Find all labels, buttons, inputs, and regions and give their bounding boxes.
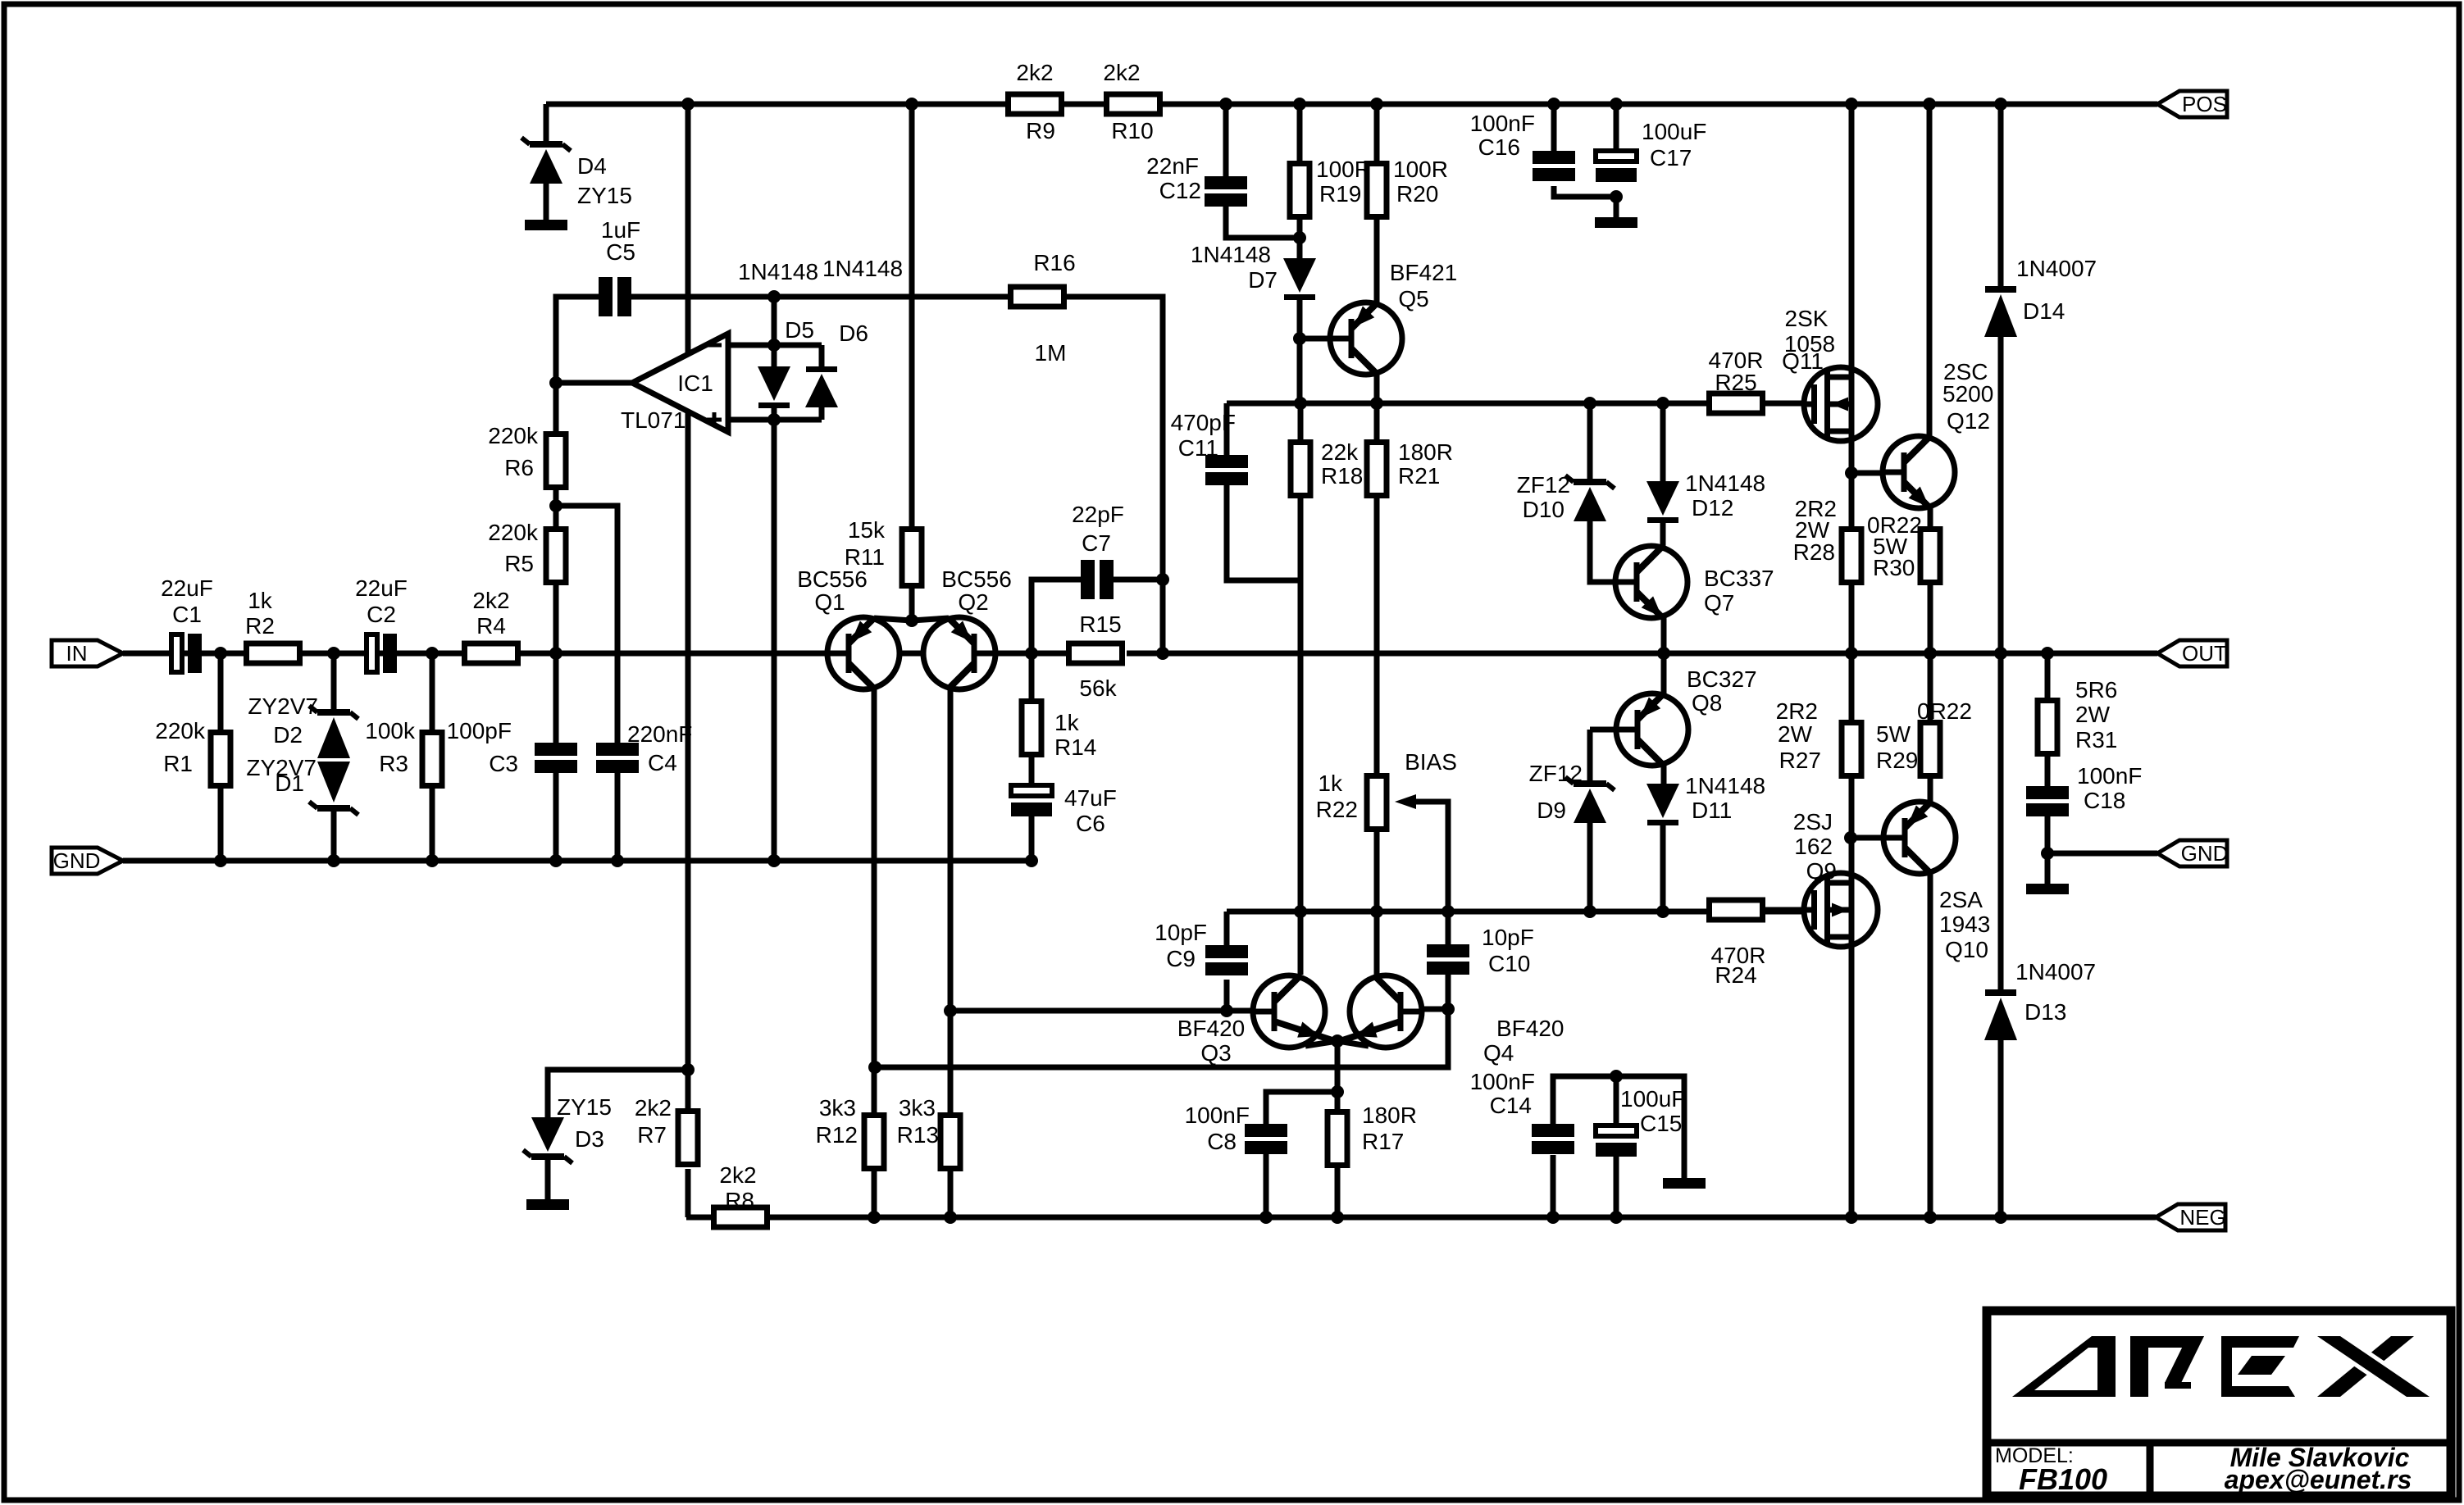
wire NEG rail <box>686 1215 2156 1221</box>
wire R9 R10 segment <box>1064 102 1104 107</box>
diode D14 (1N4007) <box>1984 286 2017 337</box>
wire POS to D14 <box>1998 104 2004 286</box>
wire R19 to D7 <box>1297 220 1303 258</box>
svg-text:D9: D9 <box>1537 798 1566 823</box>
svg-text:Q9: Q9 <box>1806 858 1837 884</box>
wire C3 bottom to GND rail <box>553 773 559 861</box>
arrow Q10 emitter (PNP) <box>1907 805 1928 826</box>
zener diode D3 <box>523 1117 572 1163</box>
svg-text:D12: D12 <box>1692 495 1733 521</box>
capacitor C7 <box>1081 560 1114 599</box>
svg-text:1M: 1M <box>1035 340 1067 366</box>
capacitor C1 <box>171 634 202 673</box>
svg-text:R20: R20 <box>1396 181 1438 207</box>
wire C18 ground stub <box>2045 853 2051 884</box>
junction dot D5 plus input <box>767 413 781 426</box>
junction dot Q3 base line start <box>944 1004 957 1017</box>
wire POS to C12 <box>1223 104 1229 176</box>
capacitor C2 <box>367 634 397 673</box>
title block divider horizontal <box>1987 1439 2451 1447</box>
junction dots GND rail <box>214 854 1038 867</box>
svg-text:180R: 180R <box>1398 439 1453 465</box>
junction dot Q12 base <box>1845 466 1858 480</box>
wire C15 bottom to NEG <box>1614 1155 1619 1217</box>
svg-text:100nF: 100nF <box>2077 763 2142 789</box>
svg-text:D13: D13 <box>2024 999 2066 1025</box>
junction dot C18 GND <box>2041 847 2054 860</box>
wire C4 bottom to GND rail <box>615 773 621 861</box>
wire Q8 base from D9 <box>1590 727 1636 733</box>
wire IN signal line <box>123 651 827 657</box>
zener diode D10 <box>1565 475 1615 521</box>
wire R28 to OUT <box>1849 585 1855 653</box>
APEX logo letter A <box>2012 1336 2116 1397</box>
svg-text:IC1: IC1 <box>677 371 713 396</box>
arrow Q1 emitter (PNP) <box>851 621 872 642</box>
svg-text:D3: D3 <box>575 1126 604 1152</box>
wire POS to R11 <box>909 104 915 526</box>
ground stub C18 <box>2026 884 2069 894</box>
svg-text:100nF: 100nF <box>1470 111 1535 136</box>
svg-text:FB100: FB100 <box>2019 1462 2107 1496</box>
svg-text:NEG: NEG <box>2179 1205 2225 1230</box>
svg-text:D6: D6 <box>839 321 868 346</box>
svg-text:R5: R5 <box>504 551 534 576</box>
wire Q5 collector to junction <box>1374 372 1380 403</box>
wire C9 top branch <box>1224 912 1230 945</box>
resistor R3 <box>422 733 442 786</box>
ground stub C14 C15 <box>1663 1178 1706 1189</box>
resistor R7 <box>678 1112 698 1165</box>
svg-text:D14: D14 <box>2023 298 2065 324</box>
svg-text:22nF: 22nF <box>1146 153 1199 179</box>
svg-text:BC556: BC556 <box>941 566 1012 592</box>
op-amp IC1 (TL071) <box>632 334 728 432</box>
svg-text:R2: R2 <box>245 613 275 639</box>
wire Q9 source to NEG <box>1849 946 1855 1217</box>
junction dots NEG rail <box>868 1211 2007 1224</box>
transistor Q3 (BF420) <box>1253 975 1325 1048</box>
wire C12 bottom to D7 column <box>1226 206 1300 238</box>
wire Q8 emitter to OUT <box>1661 653 1667 693</box>
wire POS to C17 <box>1614 104 1619 151</box>
svg-text:C18: C18 <box>2084 788 2125 813</box>
svg-text:1N4007: 1N4007 <box>2015 959 2096 984</box>
svg-text:1N4148: 1N4148 <box>1685 471 1765 496</box>
wire R3 column <box>430 653 435 730</box>
capacitor C4 <box>596 743 639 773</box>
svg-text:100nF: 100nF <box>1470 1069 1535 1094</box>
svg-text:1k: 1k <box>1054 710 1080 735</box>
svg-text:3k3: 3k3 <box>899 1095 936 1121</box>
resistor R1 <box>211 733 230 786</box>
wire R13 bottom to NEG <box>948 1171 954 1217</box>
junction dot tail C8 R17 <box>1331 1085 1344 1098</box>
wire D10 column <box>1587 403 1593 479</box>
svg-text:GND: GND <box>53 848 101 873</box>
svg-text:C14: C14 <box>1490 1093 1532 1118</box>
svg-text:2k2: 2k2 <box>635 1095 672 1121</box>
junction dots POS rail <box>681 98 2007 111</box>
junction dot Q4 base <box>1442 1003 1455 1016</box>
port POS <box>2157 91 2227 117</box>
junction dot Q10 base <box>1844 831 1857 844</box>
svg-text:1N4148: 1N4148 <box>1191 242 1271 267</box>
wire POS to R19 <box>1297 104 1303 161</box>
wire common tail to R17 <box>1335 1041 1341 1109</box>
wire R24 to Q9 gate <box>1765 907 1812 913</box>
svg-text:R24: R24 <box>1715 962 1756 988</box>
svg-text:1N4148: 1N4148 <box>1685 773 1765 798</box>
wire D5 body connections <box>772 345 777 366</box>
wire R5 bottom to signal line <box>553 584 559 653</box>
junction dot C16 C17 bottom <box>1610 190 1623 203</box>
port IN <box>52 640 123 666</box>
wire C14 bottom to NEG <box>1551 1155 1556 1217</box>
junction dot C7 right <box>1156 573 1169 586</box>
svg-text:C10: C10 <box>1488 951 1530 976</box>
svg-text:R1: R1 <box>163 751 193 776</box>
svg-text:ZF12: ZF12 <box>1517 472 1570 498</box>
svg-text:C15: C15 <box>1640 1111 1682 1136</box>
wire OUT to R27 <box>1849 653 1855 720</box>
wire C15 top <box>1614 1076 1619 1125</box>
wire C14 top line to ground stub <box>1553 1076 1684 1178</box>
wire signal through Q1 Q2 bases <box>827 651 995 657</box>
wire OUT to D13 <box>1998 653 2004 989</box>
wire Q4 emitter join <box>1337 1041 1369 1046</box>
resistor R8 <box>714 1207 767 1227</box>
svg-text:Q1: Q1 <box>814 589 845 615</box>
svg-text:R27: R27 <box>1779 748 1821 773</box>
svg-text:D7: D7 <box>1248 267 1278 293</box>
wire GND tag line <box>2047 851 2157 857</box>
svg-text:Q8: Q8 <box>1692 690 1722 716</box>
svg-text:R30: R30 <box>1873 555 1915 580</box>
svg-text:2W: 2W <box>2075 702 2111 727</box>
wire Q2 collector to R13 <box>948 687 954 1112</box>
diode D6 (1N4148) <box>805 366 838 407</box>
capacitor C3 <box>535 743 577 773</box>
wire C7 branch left <box>1032 580 1081 653</box>
svg-text:BC337: BC337 <box>1704 566 1774 591</box>
wire Q5 base <box>1300 336 1332 342</box>
svg-text:470pF: 470pF <box>1171 410 1236 435</box>
junction dot D5 on C5 line <box>767 290 781 303</box>
svg-text:1N4007: 1N4007 <box>2016 256 2097 281</box>
wire OUT rail <box>1163 651 2157 657</box>
wire D4 to terminal bar <box>544 182 549 220</box>
transistor Q7 (BC337) <box>1615 546 1687 618</box>
wire D14 to OUT rail <box>1998 337 2004 653</box>
transistor Q4 (BF420) <box>1350 975 1422 1048</box>
svg-text:2W: 2W <box>1778 721 1813 747</box>
arrow Q12 emitter <box>1909 487 1929 507</box>
junction dot feedback on Q1 collector <box>868 1061 881 1074</box>
wire R21 R22 column <box>1374 403 1380 439</box>
svg-text:GND: GND <box>2181 841 2229 866</box>
svg-text:D4: D4 <box>577 153 607 179</box>
capacitor C10 <box>1427 944 1469 975</box>
wire Q2 emitter join <box>912 618 949 621</box>
svg-text:5200: 5200 <box>1943 381 1993 407</box>
svg-text:5W: 5W <box>1876 721 1911 747</box>
wire C8 bottom to NEG <box>1264 1154 1269 1217</box>
resistor R13 <box>941 1116 960 1169</box>
svg-text:C4: C4 <box>648 750 677 775</box>
wire R6 to R5 with branch to C4 <box>553 489 559 526</box>
wire Q11 source column <box>1849 440 1855 526</box>
junction dots gate drive line <box>1294 397 1669 410</box>
svg-text:1k: 1k <box>248 588 273 613</box>
resistor R16 <box>1011 287 1064 307</box>
resistor R4 <box>465 643 518 663</box>
svg-text:Q12: Q12 <box>1947 408 1990 434</box>
wire Q9 to Q10 base <box>1851 835 1899 841</box>
resistor R9 <box>1009 94 1062 114</box>
port GND <box>52 848 123 874</box>
title block box <box>1987 1311 2451 1496</box>
terminal bar below D4 <box>525 220 567 230</box>
svg-text:3k3: 3k3 <box>819 1095 856 1121</box>
resistor R31 <box>2038 701 2057 754</box>
wire C7 branch right <box>1114 577 1163 583</box>
svg-text:1N4148: 1N4148 <box>738 259 818 284</box>
svg-text:R21: R21 <box>1398 463 1440 489</box>
wire D9 column <box>1587 730 1593 780</box>
capacitor C12 <box>1205 176 1247 207</box>
arrow Q7 emitter <box>1642 596 1662 617</box>
svg-text:1943: 1943 <box>1939 912 1990 937</box>
svg-text:R22: R22 <box>1316 797 1358 822</box>
wire R16 right to C7 junction and signal <box>1065 297 1163 653</box>
svg-text:100pF: 100pF <box>447 718 512 743</box>
wire op-amp minus input <box>728 343 822 348</box>
svg-text:Q7: Q7 <box>1704 590 1734 616</box>
zener diode D1 (bottom of pair) <box>309 762 358 815</box>
resistor R20 <box>1367 164 1387 217</box>
svg-text:Q3: Q3 <box>1200 1040 1231 1066</box>
diode D7 (1N4148) <box>1283 258 1316 300</box>
svg-text:100R: 100R <box>1316 157 1371 182</box>
svg-text:Q11: Q11 <box>1782 348 1824 374</box>
wire R31 to C18 <box>2045 757 2051 786</box>
diode D5 (1N4148) <box>758 366 790 408</box>
wire GND rail <box>123 858 1032 864</box>
svg-text:R29: R29 <box>1876 748 1918 773</box>
svg-text:BC327: BC327 <box>1687 666 1757 692</box>
wire D7 to Q5 base junction <box>1297 299 1303 339</box>
svg-text:R15: R15 <box>1079 612 1121 637</box>
transistor Q5 (BF421) <box>1330 302 1402 375</box>
svg-text:180R: 180R <box>1362 1103 1417 1128</box>
capacitor C16 <box>1533 151 1575 181</box>
resistor R5 <box>546 530 566 583</box>
svg-text:IN: IN <box>66 641 88 666</box>
resistor R24 <box>1710 900 1763 920</box>
svg-text:ZY15: ZY15 <box>557 1094 612 1120</box>
svg-text:R3: R3 <box>379 751 408 776</box>
wire POS to R20 <box>1374 104 1380 161</box>
wire C9 bottom to Q3 base line <box>1224 980 1230 1011</box>
wire C16 C17 bottoms to ground stub <box>1554 186 1616 217</box>
svg-text:C3: C3 <box>489 751 518 776</box>
APEX logo letter E <box>2221 1336 2299 1397</box>
resistor R28 <box>1842 530 1861 583</box>
wire Q4 base <box>1423 1007 1448 1012</box>
junction dots signal line <box>214 647 1169 660</box>
wire R11 to Q1 Q2 emitters <box>909 589 915 621</box>
svg-text:C1: C1 <box>172 602 202 627</box>
resistor R30 <box>1920 530 1940 583</box>
wire C5 feedback line <box>556 297 599 383</box>
transistor Q2 (BC556) <box>923 617 995 689</box>
transistor Q8 (BC327) <box>1616 693 1688 766</box>
svg-text:R16: R16 <box>1033 250 1075 275</box>
port NEG <box>2156 1204 2226 1230</box>
wire Q1 emitter join <box>874 618 912 621</box>
wire D13 to NEG rail <box>1998 1039 2004 1217</box>
svg-text:ZF12: ZF12 <box>1529 761 1583 786</box>
wire R30 to OUT <box>1928 585 1933 653</box>
resistor R15 <box>1069 643 1123 663</box>
svg-text:5R6: 5R6 <box>2075 677 2117 702</box>
capacitor C18 <box>2026 786 2069 816</box>
svg-text:220k: 220k <box>488 520 539 545</box>
svg-text:Q2: Q2 <box>958 589 988 615</box>
svg-text:D2: D2 <box>273 722 303 748</box>
svg-text:Q5: Q5 <box>1398 286 1428 311</box>
svg-text:ZY15: ZY15 <box>577 183 632 208</box>
svg-text:C7: C7 <box>1082 530 1111 556</box>
resistor R10 <box>1107 94 1160 114</box>
svg-text:R28: R28 <box>1793 539 1835 565</box>
wire R29 to Q10 emitter <box>1928 777 1933 802</box>
svg-text:R6: R6 <box>504 455 534 480</box>
svg-text:100nF: 100nF <box>1185 1103 1250 1128</box>
svg-text:22uF: 22uF <box>355 575 408 601</box>
diode D12 (1N4148) <box>1646 481 1679 523</box>
svg-text:2R2: 2R2 <box>1776 698 1818 724</box>
wire POS to Q11 drain <box>1849 104 1855 377</box>
wire Q3 emitter diagonal <box>1274 1021 1337 1042</box>
svg-text:R19: R19 <box>1319 181 1361 207</box>
capacitor C14 <box>1532 1124 1574 1154</box>
wire BIAS line y1112 <box>1227 909 1812 915</box>
svg-text:BC556: BC556 <box>797 566 868 592</box>
capacitor C9 <box>1205 945 1248 975</box>
svg-text:R12: R12 <box>816 1122 858 1148</box>
svg-text:R10: R10 <box>1111 118 1153 143</box>
port OUT <box>2157 640 2227 666</box>
svg-text:BIAS: BIAS <box>1405 749 1457 775</box>
svg-text:BF420: BF420 <box>1496 1016 1564 1041</box>
svg-text:100k: 100k <box>365 718 416 743</box>
svg-text:R31: R31 <box>2075 727 2117 752</box>
port GND right <box>2157 840 2228 866</box>
arrow Q4 emitter <box>1355 1022 1378 1038</box>
wire Q2 base to R15 <box>995 651 1066 657</box>
resistor R11 <box>902 530 922 586</box>
wire op-amp plus input <box>728 417 822 423</box>
wire R7 to R8 <box>685 1169 691 1217</box>
wire plus input down to GND rail <box>772 420 777 861</box>
wire D6 loop <box>819 345 825 366</box>
wire D11 to BIAS line <box>1660 825 1666 912</box>
svg-text:2k2: 2k2 <box>719 1162 756 1188</box>
zener diode D4 <box>521 138 571 184</box>
wire Q8 collector to D11 <box>1661 766 1667 784</box>
svg-text:100R: 100R <box>1393 157 1448 182</box>
svg-text:56k: 56k <box>1079 675 1117 701</box>
svg-text:22uF: 22uF <box>161 575 213 601</box>
trimmer R22 (BIAS) <box>1367 776 1416 830</box>
svg-text:R13: R13 <box>897 1122 939 1148</box>
svg-text:R4: R4 <box>476 613 506 639</box>
junction dot Q1 Q2 emitters <box>905 614 918 627</box>
resistor R25 <box>1710 393 1763 413</box>
resistor R12 <box>864 1116 884 1169</box>
svg-text:D1: D1 <box>275 771 304 796</box>
svg-text:22k: 22k <box>1321 439 1359 465</box>
capacitor C15 <box>1596 1125 1637 1157</box>
svg-text:OUT: OUT <box>2182 641 2227 666</box>
svg-text:C2: C2 <box>367 602 396 627</box>
transistor Q9 (2SJ162) <box>1804 873 1878 947</box>
capacitor C6 <box>1011 785 1052 816</box>
resistor R2 <box>247 643 300 663</box>
junction dot C15 top <box>1610 1070 1623 1083</box>
svg-text:BF421: BF421 <box>1390 260 1458 285</box>
wire D12 column <box>1660 403 1666 481</box>
capacitor C17 <box>1596 151 1637 182</box>
wire Q4 emitter diagonal <box>1337 1021 1401 1042</box>
svg-text:2SK: 2SK <box>1785 306 1829 331</box>
wire y492 corner to C11 <box>1224 403 1230 455</box>
svg-text:C6: C6 <box>1076 811 1105 836</box>
wire Q4 base down to feedback line <box>875 1009 1448 1067</box>
wire op-amp output to R6 <box>556 383 632 431</box>
svg-text:D5: D5 <box>785 317 814 343</box>
svg-text:C16: C16 <box>1478 134 1520 160</box>
svg-text:R18: R18 <box>1321 463 1363 489</box>
transistor Q12 (2SC5200) <box>1883 436 1955 508</box>
wire C18 to GND tag line <box>2045 816 2051 853</box>
title block divider vertical <box>2147 1443 2154 1496</box>
svg-text:0R22: 0R22 <box>1917 698 1972 724</box>
wire Q12 base <box>1851 471 1902 476</box>
wire C5 to R16 <box>631 294 1008 300</box>
svg-text:100uF: 100uF <box>1620 1086 1685 1112</box>
wire D1 D2 column <box>331 653 337 709</box>
svg-text:C17: C17 <box>1650 145 1692 171</box>
svg-text:R7: R7 <box>637 1122 667 1148</box>
svg-text:C9: C9 <box>1166 946 1196 971</box>
svg-text:Q4: Q4 <box>1483 1040 1514 1066</box>
wire R17 bottom to NEG <box>1335 1168 1341 1217</box>
svg-text:10pF: 10pF <box>1155 920 1207 945</box>
arrow Q3 emitter <box>1297 1022 1320 1038</box>
capacitor C11 <box>1205 455 1248 485</box>
wire R25 to Q11 gate <box>1765 401 1812 407</box>
wire y492 gate drive line <box>1227 401 1765 407</box>
junction dot D3 R7 <box>681 1063 695 1076</box>
svg-text:C5: C5 <box>606 239 635 265</box>
junction dot D5 minus input <box>767 339 781 352</box>
svg-text:C12: C12 <box>1159 178 1201 203</box>
zener diode D9 <box>1565 777 1615 823</box>
arrow Q2 emitter (PNP) <box>951 621 972 642</box>
